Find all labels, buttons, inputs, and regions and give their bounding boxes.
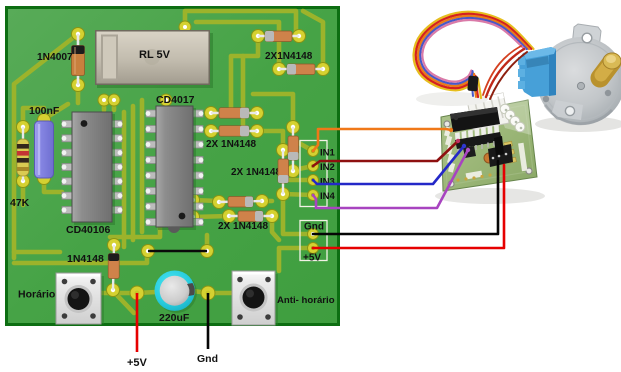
wire IN4 purple [313, 150, 468, 208]
svg-text:+5V: +5V [303, 253, 321, 264]
node pad +5V wire [130, 286, 144, 300]
wire trace IN1 link [299, 143, 313, 151]
svg-text:IN1: IN1 [320, 148, 336, 159]
LEDs [500, 104, 525, 132]
diode D10 1N4148 bottom-left [67, 245, 119, 290]
motor screw left [543, 96, 549, 102]
wire trace 47K bottom stub [21, 181, 26, 205]
wire trace IN2 link [294, 166, 313, 170]
wire +5V red bottom [127, 293, 148, 369]
wire trace mid bus 2 [131, 106, 136, 240]
diode D9 1N4148 vertical right b [278, 150, 289, 194]
pads [17, 21, 330, 300]
wire trace mid bus 1 [122, 112, 127, 247]
svg-text:1N4148: 1N4148 [67, 253, 104, 265]
wire trace relay mid stub [164, 100, 169, 107]
connection wires [313, 129, 504, 248]
node pad IN4 [308, 190, 319, 201]
node pad Gnd wire [201, 286, 215, 300]
wire black jumper on board [148, 250, 207, 253]
node header IN box [300, 141, 336, 207]
wire trace diodeV1 top to upper bus [253, 94, 293, 127]
wire trace second top bus [196, 22, 279, 64]
wire trace IN4 link [283, 194, 313, 195]
wire trace IN3 link [290, 178, 313, 183]
wire trace diodeB right corner [303, 11, 323, 69]
op-amp U2 CD4017 [146, 94, 204, 233]
wire trace cap left lead [137, 292, 156, 293]
node pad IN1 [308, 146, 319, 157]
svg-text:IN4: IN4 [320, 191, 336, 202]
diode D4 1N4148 mid a [206, 108, 257, 150]
node pad D3 right [317, 63, 330, 76]
wire trace bottom diag [113, 291, 134, 313]
wire motor cable bundle [414, 12, 534, 99]
node pad Gnd header [308, 229, 319, 240]
wire trace 1N4007 bottom stub [76, 85, 81, 103]
wire +5V red to board [313, 165, 504, 248]
motor shaft [600, 53, 621, 78]
node solder dots [456, 172, 499, 181]
node pad D1 top [72, 28, 85, 41]
node pad D3 left [273, 63, 286, 76]
switch SW2 Anti-horario [232, 271, 335, 325]
node pad D10 bottom [107, 284, 120, 297]
node pad R1 bottom [17, 175, 30, 188]
wire trace mid bus 3 [140, 100, 145, 232]
motor ear hole bottom [565, 106, 574, 115]
capacitor on module [484, 153, 494, 163]
motor blue housing [518, 47, 556, 97]
diode D3 1N4148 top-right b [279, 64, 323, 75]
motor ear hole top [582, 33, 592, 43]
shadow under driver board [435, 188, 545, 204]
switch SW1 Horario [18, 273, 104, 324]
mounting hole BR [526, 168, 532, 174]
wire trace button to +5V pad [101, 291, 131, 296]
node pad +5V header [308, 243, 319, 254]
capacitor C2 220uF [155, 271, 197, 325]
shadow under motor [535, 116, 621, 132]
node pad D6 right [256, 195, 269, 208]
relay RL1 [95, 30, 213, 88]
motor body circle [537, 37, 621, 125]
svg-text:2X 1N4148: 2X 1N4148 [231, 167, 281, 178]
wire trace left-edge long run [14, 34, 78, 258]
wire tie black [467, 76, 478, 92]
motor ear top [572, 24, 601, 48]
wire trace diodeA left drop [231, 36, 258, 113]
node pad IN2 [308, 161, 319, 172]
SMD parts [504, 141, 517, 163]
node pad D10 top [108, 239, 121, 252]
node pad relay top [179, 21, 191, 33]
node pad D9 bottom [277, 188, 290, 201]
IC ULN2003 black body [450, 107, 502, 154]
wire trace 47K top link [23, 108, 44, 127]
svg-text:100nF: 100nF [29, 105, 60, 117]
node pad near D6 [187, 194, 200, 207]
wire trace diodeF left [193, 216, 229, 217]
node header power box [300, 221, 327, 264]
wire trace diodeF drop [272, 216, 279, 240]
svg-text:47K: 47K [10, 197, 30, 209]
IC pin teeth [455, 124, 499, 142]
node pad near D7 [187, 211, 200, 224]
wire trace 100nF top diag [44, 104, 68, 119]
node pad D8 top [287, 121, 300, 134]
diode D8 1N4148 vertical right a [231, 127, 299, 178]
small black part [463, 146, 476, 158]
svg-text:CD40106: CD40106 [66, 224, 111, 236]
node pad jumper right [201, 245, 214, 258]
wire strands into connector [476, 77, 478, 97]
IC under shadow [455, 132, 502, 149]
node pad C1 top [38, 114, 51, 127]
wire trace jumper pad vert [205, 235, 210, 251]
node pad relay bottom2 [108, 94, 120, 106]
wire Gnd black bottom [197, 293, 218, 365]
wire trace 100nF bottom stub [44, 179, 62, 192]
PCB board [5, 6, 340, 326]
right photo [435, 24, 621, 204]
node pad D4 left [205, 107, 218, 120]
wire trace cap right lead [193, 291, 231, 293]
wire trace top bus [185, 11, 296, 34]
driver board U3 ULN2003 module [441, 93, 537, 191]
white motor connector on board [467, 93, 509, 130]
wire trace bottom-left run to jumper pad [14, 252, 147, 263]
node pad D5 left [205, 125, 218, 138]
node wire end dots [449, 128, 470, 152]
svg-text:Gnd: Gnd [304, 222, 324, 233]
svg-text:2X 1N4148: 2X 1N4148 [206, 139, 256, 150]
svg-text:1N4007: 1N4007 [37, 52, 73, 63]
mounting hole TL [444, 121, 450, 127]
svg-text:Anti- horário: Anti- horário [277, 295, 335, 306]
node pad D4 right [251, 107, 264, 120]
wire IN3 blue [313, 146, 464, 184]
diode D1 1N4007 [37, 34, 85, 85]
node pad R1 top [17, 121, 30, 134]
silkscreen strips left [444, 127, 482, 180]
node pad D2 left [252, 30, 265, 43]
motor center boss [577, 82, 584, 89]
node pad D7 right [266, 210, 279, 223]
node pad C1 bottom [38, 172, 51, 185]
svg-text:2X 1N4148: 2X 1N4148 [218, 221, 268, 232]
svg-text:Horário: Horário [18, 289, 55, 301]
wire trace Gnd feed [283, 194, 313, 234]
svg-text:IN2: IN2 [320, 162, 335, 173]
pad holes [21, 25, 325, 295]
diode D6 1N4148 low a [218, 197, 268, 233]
wire trace vertical x243 [241, 56, 246, 131]
wire IN2 dark red [313, 141, 458, 166]
header pins with jumper [488, 136, 513, 167]
diode D5 1N4148 mid b [211, 126, 257, 137]
wire trace relay pads down [102, 100, 107, 110]
traces [14, 11, 323, 313]
silkscreen strip right [518, 143, 527, 171]
svg-text:IN3: IN3 [320, 177, 335, 188]
svg-text:CD4017: CD4017 [156, 94, 195, 106]
IC lower pin glints [458, 140, 500, 155]
motor M1 [518, 24, 621, 125]
pin 1 notch [454, 116, 458, 120]
node pad IN3 [308, 175, 319, 186]
op-amp U1 CD40106 [62, 112, 123, 236]
node pad D1 bottom [72, 79, 85, 92]
svg-text:Gnd: Gnd [197, 353, 218, 365]
svg-text:RL 5V: RL 5V [139, 49, 171, 61]
motor ear bottom [551, 98, 585, 122]
diode D7 1N4148 low b [229, 211, 272, 222]
wire trace under CD4017 [110, 225, 160, 237]
wire IN1 orange [313, 129, 451, 151]
wire trace right of diodes EF [262, 199, 272, 204]
wire trace bottom-left short [14, 250, 60, 255]
wire trace diodeV2 top link [257, 131, 283, 150]
node pad relay bottom1 [98, 94, 110, 106]
svg-text:+5V: +5V [127, 357, 148, 369]
node pad D5 right [251, 125, 264, 138]
shadow of cable loop [416, 92, 488, 106]
wire Gnd black to board [313, 161, 498, 234]
wire trace +5V feed [279, 248, 313, 271]
mounting hole BL [448, 181, 454, 187]
capacitor C1 100nF [29, 105, 60, 178]
motor screw right [605, 90, 611, 96]
node pad jumper left [142, 245, 155, 258]
svg-text:220uF: 220uF [159, 312, 190, 324]
node pad D8 bottom [287, 165, 300, 178]
node pad D9 top [277, 144, 290, 157]
motor ear bottom visible face [552, 100, 583, 120]
wire trace diodeE left [193, 200, 218, 201]
node pad D2 right [293, 30, 306, 43]
node pad D6 left [213, 196, 226, 209]
diode D2 1N4148 top-right a [258, 31, 313, 62]
svg-text:2X1N4148: 2X1N4148 [265, 51, 313, 62]
node pad D7 left [223, 210, 236, 223]
node pad relay bottom3 [160, 94, 172, 106]
resistor R1 47K [10, 127, 30, 209]
